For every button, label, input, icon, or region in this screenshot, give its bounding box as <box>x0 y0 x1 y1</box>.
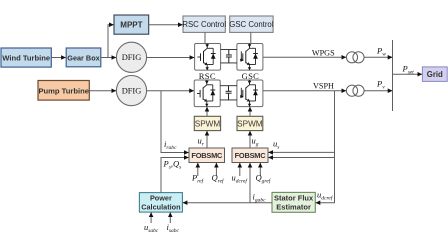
block FOBSMC 2 <box>232 148 268 163</box>
wire T1 to bus <box>364 56 392 58</box>
block MPPT <box>114 15 149 34</box>
svg-text:Gear Box: Gear Box <box>67 54 99 63</box>
wire GSC2 to transformer T2 <box>263 90 346 92</box>
stub u_dcref <box>239 163 241 176</box>
svg-text:WPGS: WPGS <box>312 48 335 57</box>
svg-text:Grid: Grid <box>427 70 443 79</box>
stub P_ref <box>197 163 199 176</box>
svg-text:MPPT: MPPT <box>120 21 142 30</box>
block Power Calculation <box>139 193 182 213</box>
block SPWM 2 <box>237 116 263 130</box>
wire u_r FOBSMC1 to SPWM1 <box>206 131 208 148</box>
stub u_sabc <box>150 213 152 224</box>
transformer T2 <box>346 85 364 96</box>
svg-text:Calculation: Calculation <box>141 202 180 211</box>
svg-text:Power: Power <box>150 194 172 203</box>
wire DFIG1 to RSC1 <box>147 57 195 59</box>
wire Gear Box to DFIG1 <box>101 57 116 59</box>
svg-text:FOBSMC: FOBSMC <box>191 151 223 160</box>
wire SPWM1 to RSC2 <box>206 107 208 116</box>
svg-text:RSC: RSC <box>199 71 216 81</box>
wire Stator Flux Estimator to Power Calculation <box>183 202 272 204</box>
converter GSC2 <box>237 80 263 107</box>
dc link capacitor C2 <box>226 86 232 100</box>
svg-text:DFIG: DFIG <box>122 87 142 96</box>
wire i_gabc up to FOBSMC2 <box>249 163 251 203</box>
wire SPWM2 to GSC2 <box>249 107 251 116</box>
svg-text:Wind Turbine: Wind Turbine <box>2 54 50 63</box>
svg-text:GSC: GSC <box>242 71 260 81</box>
svg-text:SPWM: SPWM <box>237 119 263 128</box>
wire GSC Control to GSC1 <box>250 32 252 43</box>
block FOBSMC 1 <box>189 148 225 163</box>
block SPWM 1 <box>194 116 220 130</box>
stub i_sabc <box>169 213 171 224</box>
wire P_s Q_s from Power Calculation to FOBSMC1 <box>161 158 189 193</box>
wire Wind Turbine to Gear Box <box>51 57 65 59</box>
block Pump Turbine <box>38 81 89 101</box>
generator DFIG 2 <box>116 76 146 106</box>
dc link row2 rails <box>220 86 237 100</box>
wire bus to Grid <box>393 73 423 75</box>
wire RSC Control to RSC1 <box>204 32 206 43</box>
converter RSC2 <box>194 80 220 107</box>
wire u_s lower into FOBSMC2 <box>268 157 334 159</box>
wire u_g FOBSMC2 to SPWM2 <box>249 131 251 148</box>
svg-text:RSC Control: RSC Control <box>182 20 226 29</box>
wire tap to MPPT <box>108 25 114 58</box>
block Stator Flux Estimator <box>272 192 315 212</box>
stub Q_gref <box>259 163 261 176</box>
stub Q_ref <box>215 163 217 176</box>
block Wind Turbine <box>1 48 51 67</box>
svg-text:Pump Turbine: Pump Turbine <box>38 87 88 96</box>
wire DFIG2 to RSC2 <box>147 90 194 92</box>
wire u_s tap down and into Stator Flux Estimator <box>316 91 335 203</box>
svg-text:DFIG: DFIG <box>122 53 142 62</box>
svg-text:Estimator: Estimator <box>276 202 311 211</box>
block Grid <box>422 67 447 82</box>
svg-text:VSPH: VSPH <box>313 81 334 90</box>
wire Pump Turbine to DFIG2 <box>89 90 116 92</box>
transformer T1 <box>346 52 364 63</box>
wire MPPT to RSC Control <box>149 24 183 26</box>
dc link capacitor C1 <box>226 50 232 63</box>
converter GSC1 <box>237 44 263 71</box>
svg-text:SPWM: SPWM <box>195 119 221 128</box>
generator DFIG 1 <box>116 42 146 72</box>
block GSC Control <box>229 16 273 32</box>
bus line <box>392 40 394 111</box>
block RSC Control <box>182 16 226 32</box>
svg-text:Stator Flux: Stator Flux <box>274 194 314 203</box>
svg-text:FOBSMC: FOBSMC <box>235 151 267 160</box>
wire GSC1 to transformer T1 <box>263 56 346 58</box>
wire T2 to bus <box>364 90 392 92</box>
wire i_rabc to FOBSMC1 <box>161 91 189 153</box>
converter RSC1 <box>195 44 221 71</box>
svg-text:GSC Control: GSC Control <box>229 20 273 29</box>
block Gear Box <box>66 48 101 67</box>
wire u_s upper into FOBSMC2 <box>268 151 334 153</box>
dc link row1 rails <box>221 50 237 63</box>
